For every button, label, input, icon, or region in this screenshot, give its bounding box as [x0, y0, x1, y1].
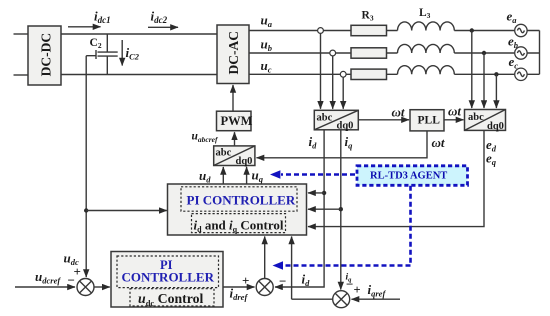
node tap u_b — [330, 50, 336, 56]
svg-text:ωt: ωt — [432, 135, 445, 150]
svg-text:ωt: ωt — [392, 104, 405, 119]
svg-text:dq0: dq0 — [487, 121, 504, 132]
controller PI voltage — [111, 252, 223, 308]
label i_C2 arrow — [122, 40, 140, 66]
capacitor C2 — [90, 34, 118, 75]
svg-text:abc: abc — [317, 112, 333, 123]
inductor L3 phase b — [398, 44, 455, 53]
svg-text:PI CONTROLLER: PI CONTROLLER — [187, 193, 296, 208]
source e_c — [515, 68, 527, 80]
source e_b — [515, 47, 527, 59]
svg-text:dq0: dq0 — [236, 156, 253, 167]
wire neutral bus — [528, 31, 540, 75]
wire i_q down — [340, 130, 342, 290]
summer udc — [77, 279, 94, 296]
wire PWM to DC-AC — [232, 85, 234, 111]
resistor R3 phase c — [351, 69, 387, 79]
svg-text:id and iq Control: id and iq Control — [194, 217, 284, 234]
inductor L3 phase a — [398, 22, 455, 31]
wire abc-dq0 to PWM — [234, 132, 236, 146]
wire dc input bottom stub — [14, 74, 29, 76]
svg-text:DC-DC: DC-DC — [39, 33, 54, 77]
wire u_dc to PI controller — [86, 210, 167, 212]
agent RL-TD3 — [357, 166, 468, 186]
converter DC-DC — [28, 26, 61, 85]
node e_c junction — [494, 72, 498, 76]
wire dc link top rail — [61, 33, 217, 35]
wire i_qref in — [352, 298, 401, 300]
node u_dc junction — [84, 208, 88, 212]
node tap u_a — [318, 28, 324, 34]
wire wt to inverse transform — [257, 131, 428, 158]
svg-text:DC-AC: DC-AC — [226, 31, 241, 75]
wire u_d — [222, 167, 224, 184]
wire phase b — [249, 52, 514, 54]
svg-text:PWM: PWM — [221, 114, 253, 128]
wire i_q to PI — [308, 208, 341, 210]
svg-text:CONTROLLER: CONTROLLER — [122, 270, 215, 285]
svg-text:+: + — [242, 273, 249, 288]
inductor L3 phase c — [398, 66, 455, 75]
svg-text:dq0: dq0 — [337, 120, 354, 131]
block PWM — [217, 111, 253, 131]
label i_dc2 — [148, 9, 178, 28]
wire e_dq feedback — [308, 130, 484, 226]
transform abc/dq0 measurement U2 — [314, 110, 358, 131]
svg-text:−: − — [279, 274, 286, 289]
wire udc controller to summer2 — [223, 286, 255, 288]
wire phase c — [249, 73, 514, 75]
summer iqref — [333, 291, 350, 308]
wire summer to udc controller — [94, 286, 110, 288]
transform abc/dq0 inverse U1 — [214, 146, 255, 167]
wire agent action to u_q (blue dashed) — [270, 170, 355, 179]
wire i_d to PI — [308, 192, 324, 194]
wire e_b sense — [483, 53, 485, 108]
svg-text:PLL: PLL — [418, 114, 441, 126]
wire u_dcref in — [15, 286, 75, 288]
wire u_q — [246, 167, 248, 184]
node i_d junction — [322, 191, 326, 195]
svg-text:RL-TD3 AGENT: RL-TD3 AGENT — [370, 171, 447, 182]
node e_b junction — [482, 51, 486, 55]
node i_q junction — [339, 207, 343, 211]
wire u_b sense — [332, 56, 334, 109]
wire summer3 to PI — [292, 237, 333, 300]
wire u_a sense — [320, 34, 322, 109]
svg-text:−: − — [68, 273, 75, 288]
svg-text:abc: abc — [468, 112, 484, 123]
wire agent action to i_dref (blue dashed) — [273, 186, 411, 270]
resistor R3 phase b — [351, 48, 387, 58]
node e_a junction — [470, 28, 474, 32]
svg-text:ωt: ωt — [448, 104, 461, 119]
wire e_c sense — [495, 74, 497, 108]
controller PI current — [168, 184, 307, 235]
svg-text:abc: abc — [216, 148, 232, 159]
wire PLL to abc — [444, 119, 464, 121]
svg-text:+: + — [354, 283, 361, 297]
wire u_dc sense down — [86, 56, 96, 276]
transform abc/dq0 grid U3 — [465, 110, 506, 133]
summer idref — [256, 279, 273, 296]
wire e_a sense — [471, 31, 473, 109]
wire i_d down — [275, 130, 324, 287]
label i_dc1 — [68, 9, 111, 27]
wire phase a — [249, 30, 514, 32]
node tap u_c — [340, 71, 346, 77]
wire dc link bottom rail — [61, 74, 217, 76]
wire abc to PLL — [358, 119, 409, 121]
wire summer2 to PI — [264, 237, 266, 279]
wire u_c sense — [342, 77, 344, 108]
block PLL — [410, 110, 444, 131]
svg-text:−: − — [346, 277, 353, 292]
converter DC-AC — [217, 25, 249, 84]
resistor R3 phase a — [351, 25, 387, 35]
wire dc input top stub — [14, 33, 29, 35]
source e_a — [515, 24, 527, 36]
